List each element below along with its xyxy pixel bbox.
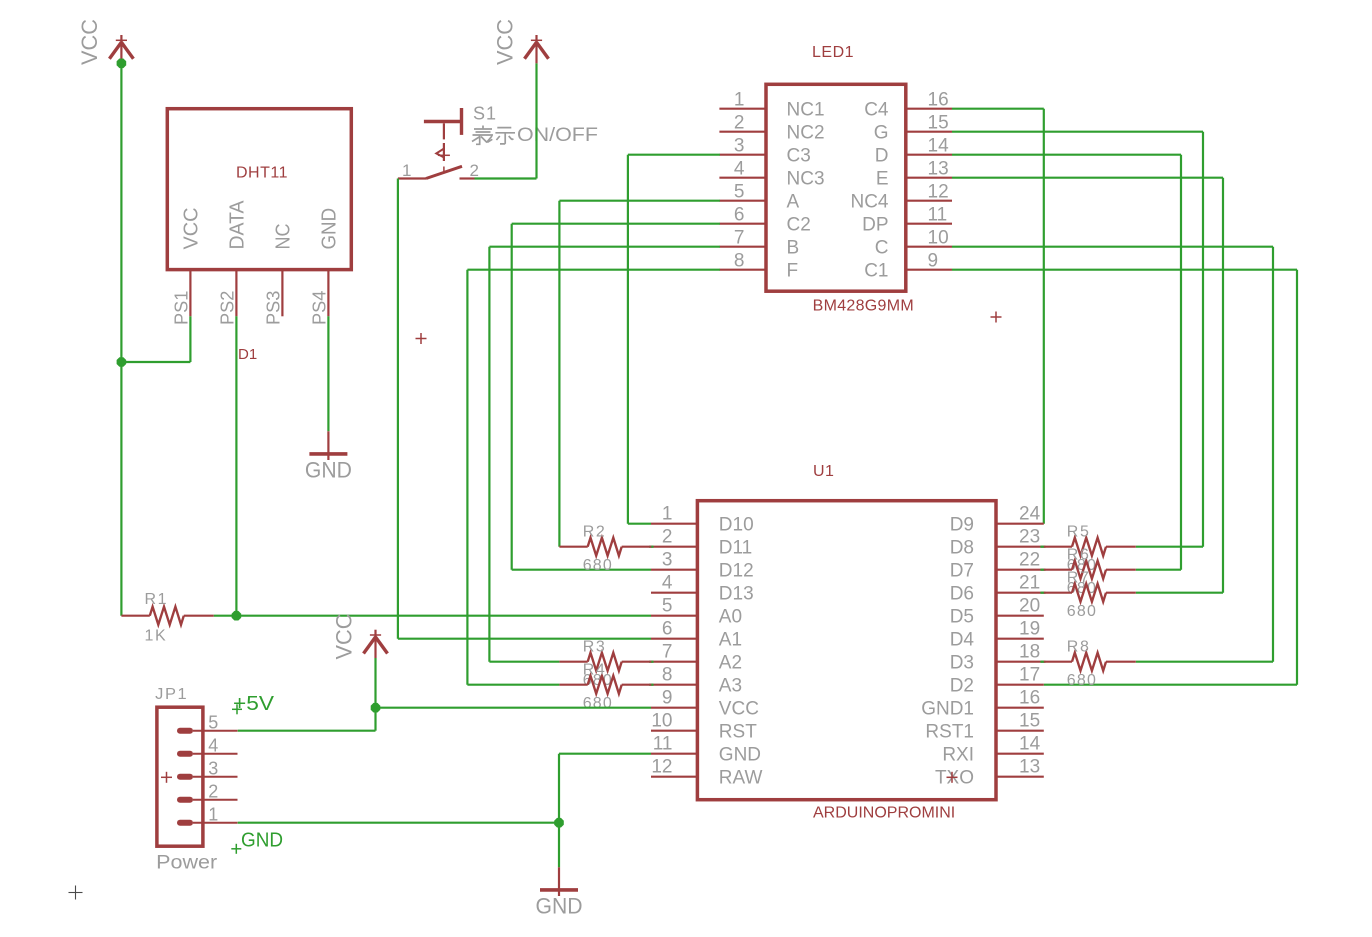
wire JP1 pin1 to GND junction [238, 822, 559, 824]
svg-text:1K: 1K [145, 628, 168, 645]
junction GND [554, 818, 564, 828]
U1 pin 22 (D7) [950, 550, 1044, 582]
LED1 pin 5 (A) [719, 182, 799, 213]
DHT11 pin PS2 [217, 270, 237, 325]
svg-text:13: 13 [1019, 757, 1040, 778]
wire LED1 F (pin8) to R4 [467, 270, 720, 685]
svg-text:C: C [875, 238, 889, 259]
U1 pin 21 (D6) [950, 573, 1044, 605]
resistor R3 680 [559, 639, 653, 690]
svg-text:3: 3 [208, 759, 218, 779]
svg-text:R8: R8 [1067, 639, 1091, 656]
wire net D1: PS2 data down to R1 junction [235, 316, 237, 615]
LED1 pin 3 (C3) [719, 136, 810, 167]
svg-text:C2: C2 [787, 215, 811, 236]
svg-text:16: 16 [1019, 688, 1040, 709]
svg-text:C3: C3 [787, 146, 811, 167]
wire junction to U1 A0 (pin 5) [236, 615, 651, 617]
svg-text:RAW: RAW [719, 768, 763, 789]
resistor R8 680 [1041, 639, 1136, 690]
U1 pin 12 (RAW) [651, 757, 762, 789]
LED1 pin 7 (B) [719, 228, 799, 259]
LED1 pin 11 (DP) [862, 205, 952, 236]
svg-text:Power: Power [156, 853, 218, 874]
svg-text:ON/OFF: ON/OFF [517, 125, 598, 146]
JP1 origin cross [161, 772, 172, 783]
svg-text:9: 9 [662, 688, 673, 709]
svg-text:11: 11 [928, 205, 948, 226]
U1 pin 1 (D10) [651, 504, 754, 536]
U1 pin 11 (GND) [651, 734, 761, 766]
svg-text:9: 9 [928, 251, 939, 272]
U1 pin 18 (D3) [950, 642, 1044, 674]
svg-text:680: 680 [1067, 672, 1097, 689]
wire LED1 C1 (pin9) to U1 D2 (pin17) [952, 270, 1297, 685]
JP1 pin 2 [177, 782, 238, 803]
svg-text:21: 21 [1019, 573, 1040, 594]
svg-text:R3: R3 [583, 639, 607, 656]
svg-text:7: 7 [734, 228, 745, 249]
U1 pin 20 (D5) [950, 596, 1044, 628]
switch S1 actuator arrow [436, 143, 450, 161]
wire R1 to junction [214, 615, 237, 617]
svg-text:D6: D6 [950, 584, 974, 605]
supply symbol VCC (top-left) [77, 19, 133, 65]
svg-text:R7: R7 [1067, 570, 1091, 587]
svg-text:1: 1 [734, 90, 745, 111]
U1 pin 13 (TXO) [935, 757, 1044, 789]
svg-text:D9: D9 [950, 515, 974, 536]
wire S1 pin2 to VCC [475, 63, 537, 178]
svg-text:14: 14 [928, 136, 950, 157]
svg-text:5: 5 [734, 182, 745, 203]
wire LED1 B (pin7) to R3 [489, 247, 720, 662]
svg-text:11: 11 [653, 734, 673, 755]
DHT11 pin PS1 [171, 270, 191, 325]
svg-text:GND: GND [319, 208, 341, 250]
resistor R7 680 [1041, 570, 1136, 621]
7-segment display LED1 (BM428G9MM) [766, 44, 914, 314]
svg-text:C4: C4 [864, 100, 889, 121]
U1 pin 24 (D9) [950, 504, 1044, 536]
svg-text:PS4: PS4 [309, 291, 329, 325]
svg-text:16: 16 [928, 90, 949, 111]
svg-text:LED1: LED1 [812, 44, 854, 61]
svg-text:15: 15 [1019, 711, 1040, 732]
LED1 pin 4 (NC3) [719, 159, 824, 190]
wire LED1 C2 (pin6) to U1 D12 (pin3) [512, 224, 720, 570]
svg-text:B: B [787, 238, 800, 259]
svg-text:NC3: NC3 [787, 169, 825, 190]
LED1 pin 9 (C1) [864, 251, 952, 282]
svg-text:DHT11: DHT11 [236, 164, 288, 181]
svg-text:D11: D11 [719, 538, 752, 559]
svg-text:12: 12 [928, 182, 949, 203]
U1 pin 15 (RST1) [925, 711, 1043, 743]
LED1 pin 6 (C2) [719, 205, 810, 236]
svg-text:R5: R5 [1067, 524, 1091, 541]
supply symbol VCC (at S1) [493, 19, 549, 65]
switch S1 lever and contacts [398, 166, 475, 178]
resistor R1 1K [121, 591, 213, 644]
svg-text:A3: A3 [719, 676, 742, 697]
svg-text:GND: GND [305, 458, 352, 483]
wire PS1 to VCC rail [121, 316, 190, 362]
wire junction up to VCC symbol [374, 658, 376, 708]
JP1 pin 3 [177, 759, 238, 780]
S1 name label [473, 103, 497, 123]
svg-text:RXI: RXI [942, 745, 974, 766]
svg-text:7: 7 [662, 642, 673, 663]
JP1 pin 4 [177, 736, 238, 757]
svg-text:2: 2 [470, 161, 479, 180]
svg-text:12: 12 [651, 757, 672, 778]
svg-text:E: E [876, 169, 889, 190]
svg-text:BM428G9MM: BM428G9MM [813, 297, 914, 314]
svg-text:4: 4 [734, 159, 745, 180]
net label GND [231, 830, 283, 854]
svg-text:U1: U1 [813, 463, 834, 480]
wire VCC rail vertical [120, 63, 122, 615]
resistor R5 680 [1041, 524, 1136, 575]
LED1 pin 8 (F) [719, 251, 798, 282]
svg-text:A2: A2 [719, 653, 742, 674]
LED1 pin 15 (G) [874, 113, 952, 144]
svg-text:D8: D8 [950, 538, 974, 559]
LED1 pin 2 (NC2) [719, 113, 824, 144]
LED1 origin cross [991, 312, 1002, 323]
LED1 pin 16 (C4) [864, 90, 952, 121]
svg-text:10: 10 [928, 228, 949, 249]
svg-text:8: 8 [734, 251, 745, 272]
svg-text:8: 8 [662, 665, 673, 686]
U1 pin 8 (A3) [651, 665, 742, 697]
svg-text:C1: C1 [864, 261, 888, 282]
wire LED1 C (pin10) to R8 [952, 247, 1273, 662]
svg-text:15: 15 [928, 113, 949, 134]
svg-text:22: 22 [1019, 550, 1040, 571]
wire junction to U1 VCC (pin 9) [376, 707, 652, 709]
svg-text:VCC: VCC [332, 613, 357, 659]
U1 pin 9 (VCC) [651, 688, 759, 720]
svg-text:R4: R4 [583, 662, 607, 679]
svg-text:D: D [875, 146, 889, 167]
sheet origin cross [69, 886, 83, 900]
resistor R6 680 [1041, 547, 1136, 598]
U1 pin 6 (A1) [651, 619, 742, 651]
svg-text:3: 3 [662, 550, 673, 571]
svg-text:DP: DP [862, 215, 888, 236]
wire LED1 C3 (pin3) to U1 D10 (pin1) [628, 155, 720, 524]
svg-text:5: 5 [208, 713, 218, 733]
svg-text:PS2: PS2 [217, 291, 237, 325]
resistor R2 680 [559, 524, 653, 575]
svg-text:VCC: VCC [77, 19, 102, 65]
svg-text:4: 4 [208, 736, 218, 756]
wire S1 pin1 down to U1 A1 (pin 6) [398, 179, 651, 639]
svg-text:4: 4 [662, 573, 673, 594]
svg-text:GND: GND [241, 830, 283, 852]
svg-text:VCC: VCC [493, 19, 518, 65]
U1 pin 19 (D4) [950, 619, 1044, 651]
U1 pin 4 (D13) [651, 573, 754, 605]
svg-text:D13: D13 [719, 584, 754, 605]
svg-text:680: 680 [1067, 603, 1097, 620]
U1 pin 16 (GND1) [921, 688, 1044, 720]
svg-text:PS1: PS1 [171, 291, 191, 325]
microcontroller U1 ARDUINOPROMINI [697, 463, 996, 822]
svg-text:R6: R6 [1067, 547, 1091, 564]
svg-text:VCC: VCC [719, 699, 759, 720]
svg-text:5: 5 [662, 596, 673, 617]
svg-text:+5V: +5V [233, 693, 275, 715]
net label +5V [232, 693, 275, 715]
svg-text:680: 680 [583, 695, 613, 712]
S1 value label 表示ON/OFF [472, 125, 598, 146]
JP1 pin 5 [177, 713, 238, 734]
U1 pin 7 (A2) [651, 642, 742, 674]
resistor R4 680 [559, 662, 653, 713]
svg-text:ARDUINOPROMINI: ARDUINOPROMINI [813, 805, 955, 822]
svg-text:1: 1 [402, 161, 411, 180]
svg-text:D3: D3 [950, 653, 974, 674]
wire junction down to ground [558, 823, 560, 868]
svg-text:3: 3 [734, 136, 745, 157]
svg-text:TXO: TXO [935, 768, 974, 789]
U1 pin 10 (RST) [651, 711, 757, 743]
U1 pin 2 (D11) [651, 527, 752, 559]
LED1 pin 10 (C) [875, 228, 952, 259]
wire LED1 G (pin15) to R5 [952, 132, 1203, 547]
junction on VCC rail at PS1 branch [117, 357, 127, 367]
connector JP1 Power [155, 686, 218, 874]
svg-text:NC1: NC1 [787, 100, 825, 121]
svg-text:23: 23 [1019, 527, 1040, 548]
switch S1 plunger [424, 108, 462, 139]
svg-text:13: 13 [928, 159, 949, 180]
svg-text:D2: D2 [950, 676, 974, 697]
svg-text:GND: GND [719, 745, 761, 766]
svg-text:680: 680 [583, 557, 613, 574]
svg-text:17: 17 [1019, 665, 1040, 686]
U1 pin 3 (D12) [651, 550, 754, 582]
S1 pin number 2 [470, 161, 479, 180]
svg-text:6: 6 [734, 205, 745, 226]
svg-text:F: F [787, 261, 799, 282]
net label D1 [238, 346, 257, 363]
svg-text:PS3: PS3 [263, 291, 283, 325]
svg-text:1: 1 [662, 504, 673, 525]
S1 origin cross [416, 333, 427, 344]
svg-text:20: 20 [1019, 596, 1040, 617]
wire LED1 A (pin5) to R2 [559, 201, 720, 547]
svg-text:2: 2 [734, 113, 745, 134]
svg-text:1: 1 [208, 805, 218, 825]
svg-text:NC2: NC2 [787, 123, 825, 144]
svg-text:G: G [874, 123, 889, 144]
DHT11 pin PS4 [309, 270, 329, 325]
junction at VCC top-left [117, 59, 127, 69]
LED1 pin 1 (NC1) [719, 90, 824, 121]
wire PS4 to GND [327, 316, 329, 431]
DHT11 pin PS3 (n.c.) [263, 270, 283, 325]
svg-text:6: 6 [662, 619, 673, 640]
JP1 pin 1 [177, 805, 238, 826]
wire junction to U1 GND (pin 11) [559, 754, 651, 823]
U1 pin 17 (D2) [950, 665, 1044, 697]
svg-text:NC4: NC4 [850, 192, 888, 213]
svg-text:GND1: GND1 [921, 699, 974, 720]
svg-text:D7: D7 [950, 561, 974, 582]
svg-text:A1: A1 [719, 630, 742, 651]
svg-text:R1: R1 [145, 591, 169, 608]
svg-text:D10: D10 [719, 515, 754, 536]
U1 pin 23 (D8) [950, 527, 1044, 559]
svg-text:RST1: RST1 [925, 722, 974, 743]
ground symbol GND (bottom) [536, 867, 583, 918]
svg-text:A0: A0 [719, 607, 742, 628]
svg-text:19: 19 [1019, 619, 1040, 640]
U1 origin cross [947, 772, 958, 783]
junction +5V [371, 703, 381, 713]
svg-text:GND: GND [536, 893, 583, 918]
junction R1/D1/A0 [232, 611, 242, 621]
svg-text:JP1: JP1 [155, 686, 188, 703]
svg-text:D4: D4 [950, 630, 975, 651]
svg-text:D12: D12 [719, 561, 754, 582]
svg-text:DATA: DATA [227, 200, 249, 250]
LED1 pin 13 (E) [876, 159, 952, 190]
svg-text:D1: D1 [238, 346, 257, 363]
svg-text:D5: D5 [950, 607, 974, 628]
U1 pin 14 (RXI) [942, 734, 1043, 766]
svg-text:NC: NC [273, 224, 295, 250]
wire LED1 C4 (pin16) to U1 D9 (pin24) [952, 109, 1044, 524]
svg-text:2: 2 [662, 527, 673, 548]
svg-text:A: A [787, 192, 800, 213]
wire LED1 E (pin13) to R7 [952, 178, 1223, 593]
svg-text:2: 2 [208, 782, 218, 802]
svg-text:R2: R2 [583, 524, 607, 541]
S1 pin number 1 [402, 161, 411, 180]
ground symbol GND (DHT11) [305, 431, 352, 482]
sensor DHT11 [167, 109, 351, 270]
svg-text:RST: RST [719, 722, 757, 743]
wire JP1 pin5 to VCC junction [238, 708, 376, 731]
svg-text:S1: S1 [473, 103, 497, 123]
supply symbol VCC (at JP1) [332, 613, 388, 659]
wire LED1 D (pin14) to R6 [952, 155, 1181, 570]
svg-text:10: 10 [651, 711, 672, 732]
svg-text:VCC: VCC [181, 208, 203, 250]
svg-text:24: 24 [1019, 504, 1041, 525]
svg-text:14: 14 [1019, 734, 1041, 755]
svg-text:18: 18 [1019, 642, 1040, 663]
LED1 pin 14 (D) [875, 136, 952, 167]
LED1 pin 12 (NC4) [850, 182, 952, 213]
U1 pin 5 (A0) [651, 596, 742, 628]
